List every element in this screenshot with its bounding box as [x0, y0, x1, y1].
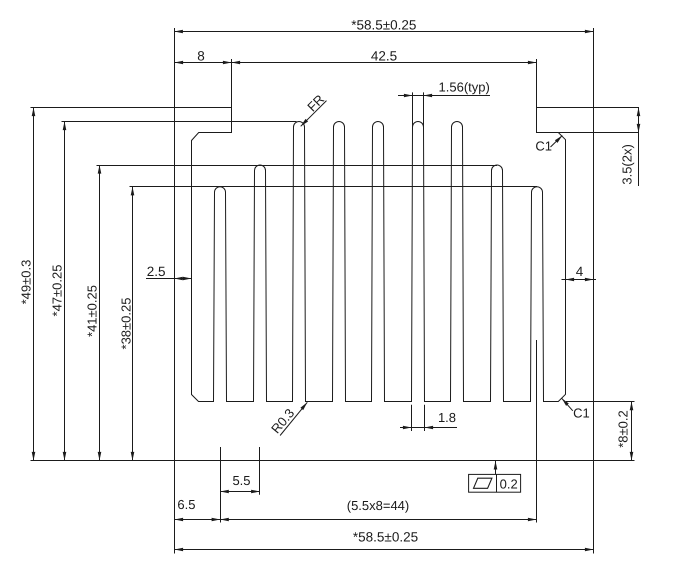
dimension 5.5 fin pitch — [220, 473, 260, 493]
extension line y=460.4 bottom shared — [31, 460, 175, 462]
extension line y=186.8 for *38 top (to fin I) — [130, 186, 538, 188]
svg-text:*41±0.25: *41±0.25 — [85, 285, 100, 337]
dimension *8±0.2 base thickness — [616, 402, 634, 461]
extension line fin-F left for 1.56(typ) — [412, 92, 414, 129]
extension line y=460.4 for *8 bottom — [594, 460, 635, 462]
label C1 bottom-right chamfer with leader — [562, 398, 590, 420]
extension line x=536.5 (fin I centre, 44 dim) — [536, 340, 538, 523]
svg-text:1.8: 1.8 — [438, 410, 456, 425]
dimension 1.56(typ) fin top width — [398, 80, 490, 98]
extension line y=121.5 for *47 top (to FR fin) — [62, 121, 297, 123]
flatness tolerance frame 0.2 with leader arrow — [469, 461, 521, 492]
svg-text:*38±0.25: *38±0.25 — [119, 298, 134, 350]
svg-text:1.56(typ): 1.56(typ) — [439, 80, 490, 95]
svg-text:3.5(2x): 3.5(2x) — [619, 144, 634, 184]
dimension 4 (right wall) — [562, 264, 597, 281]
extension line y=107.2 for *49 top — [31, 107, 175, 109]
svg-text:5.5: 5.5 — [232, 473, 250, 488]
extension line at x=231.3 (8 / 42.5 boundary) — [231, 59, 233, 108]
extension line x=220.2 (fin A centre, bottom dims) — [220, 447, 222, 523]
svg-text:*58.5±0.25: *58.5±0.25 — [353, 530, 418, 545]
dimension *49±0.3 — [18, 108, 35, 461]
svg-text:*47±0.25: *47±0.25 — [50, 265, 65, 317]
extension line at x=536.5 (42.5 right end) — [536, 59, 538, 108]
svg-text:(5.5x8=44): (5.5x8=44) — [347, 498, 410, 513]
svg-text:42.5: 42.5 — [371, 48, 397, 63]
svg-text:4: 4 — [576, 264, 584, 279]
svg-text:C1: C1 — [535, 138, 552, 153]
label FR (full round fin tip) with leader — [301, 92, 327, 127]
heatsink profile outline with 9 fins, side walls, top tabs and base — [175, 108, 639, 461]
right tab underside edge across wall — [559, 132, 594, 134]
svg-text:8: 8 — [197, 48, 205, 63]
dimension 8 (left tab width) — [175, 48, 232, 64]
svg-text:*58.5±0.25: *58.5±0.25 — [351, 17, 416, 32]
extension line y=401.7 for *8 top — [566, 401, 635, 403]
dimension 2.5 (left wall) — [146, 264, 192, 280]
svg-text:0.2: 0.2 — [500, 476, 518, 491]
svg-text:C1: C1 — [573, 405, 590, 420]
dimension 6.5 — [175, 497, 221, 521]
extension line x=259.7 (fin B centre, 5.5 dim) — [259, 447, 261, 495]
label R0.3 groove corner radius with leader — [268, 402, 307, 436]
dimension 1.8 fin root width — [400, 410, 457, 429]
svg-text:6.5: 6.5 — [177, 497, 195, 512]
extension lines fin-F root for 1.8 — [412, 405, 425, 431]
dimension *38±0.25 — [119, 187, 135, 461]
svg-text:2.5: 2.5 — [147, 264, 166, 279]
dimension 3.5(2x) tab thickness — [619, 108, 640, 187]
extension line y=165.0 for *41 top (to fin H) — [97, 165, 498, 167]
svg-text:*49±0.3: *49±0.3 — [18, 260, 33, 305]
dimension *41±0.25 — [85, 165, 102, 461]
extension line fin-F right for 1.56(typ) — [423, 92, 425, 129]
dimension *58.5±0.25 bottom — [175, 530, 594, 552]
dimension 42.5 — [232, 48, 537, 64]
dimension *58.5±0.25 top — [174, 17, 593, 33]
dimension (5.5x8=44) — [220, 498, 536, 521]
svg-text:*8±0.2: *8±0.2 — [616, 410, 631, 448]
label C1 top-right chamfer with leader — [535, 136, 562, 154]
extension line right edge (x=593.8) — [593, 28, 595, 554]
extension line left edge (x=174, top dim to bottom dim) — [174, 28, 176, 554]
dimension *47±0.25 — [50, 122, 67, 461]
